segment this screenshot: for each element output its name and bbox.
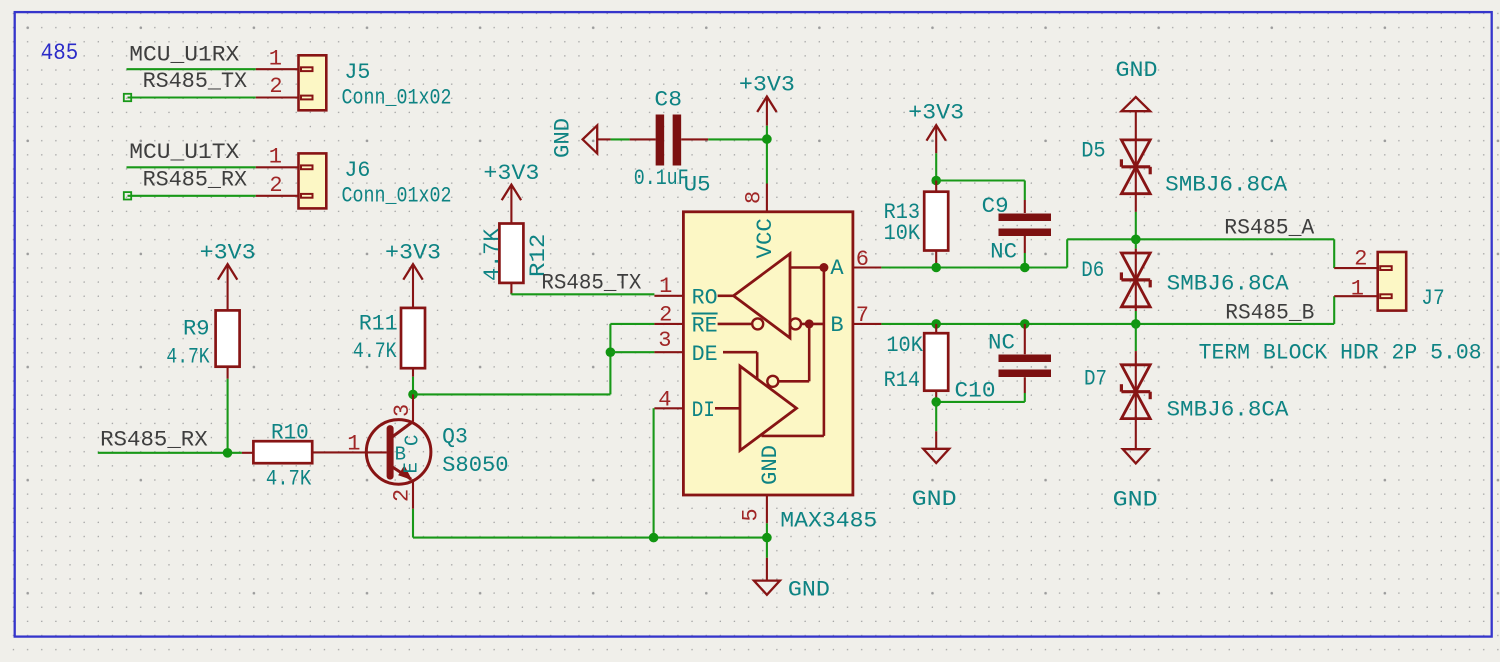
svg-text:RS485_TX: RS485_TX xyxy=(143,69,248,94)
svg-text:U5: U5 xyxy=(684,173,711,198)
svg-text:S8050: S8050 xyxy=(442,453,509,478)
svg-text:RS485_RX: RS485_RX xyxy=(100,428,208,453)
ground GND D7 xyxy=(1123,416,1149,463)
wire +3V3 to R13 xyxy=(935,153,937,180)
svg-text:1: 1 xyxy=(1351,277,1364,302)
wire R12 to U5 pin1 xyxy=(511,293,654,295)
svg-text:MCU_U1RX: MCU_U1RX xyxy=(129,43,239,68)
junction R13/pin6 xyxy=(931,263,941,273)
U5 pin 1 RO xyxy=(654,295,683,297)
svg-text:R14: R14 xyxy=(884,368,920,393)
svg-text:2: 2 xyxy=(390,489,415,502)
J7 pin 2 xyxy=(1334,267,1378,269)
svg-text:GND: GND xyxy=(912,487,957,512)
svg-text:C9: C9 xyxy=(982,194,1009,219)
power +3V3 R12 xyxy=(483,161,539,224)
wire pin6 jog up xyxy=(1066,239,1068,267)
wire DE net horizontal xyxy=(413,393,610,395)
wire R11 to Q3 collector xyxy=(412,377,414,395)
svg-text:A: A xyxy=(830,256,844,281)
junction D6/D7/RS485_B xyxy=(1131,319,1141,329)
wire R14 to GND xyxy=(935,402,937,431)
junction DI/gnd rail xyxy=(649,533,659,543)
svg-text:485: 485 xyxy=(41,40,79,67)
svg-text:5: 5 xyxy=(739,508,764,521)
svg-text:C8: C8 xyxy=(654,88,682,113)
wire junction to C9 top xyxy=(936,179,1025,181)
wire RS485_B to J7 xyxy=(1333,296,1335,324)
J6 pin 1 xyxy=(256,166,299,168)
U5 pin 8 VCC xyxy=(766,184,768,212)
junction Q3 collector/DE net xyxy=(408,390,418,400)
svg-text:RS485_RX: RS485_RX xyxy=(143,167,248,192)
svg-text:MAX3485: MAX3485 xyxy=(780,509,877,534)
U5 pin 6 A xyxy=(853,266,882,268)
svg-text:3: 3 xyxy=(390,404,415,417)
svg-text:Conn_01x02: Conn_01x02 xyxy=(342,86,452,111)
wire Q3 emitter down xyxy=(412,509,414,538)
svg-text:Conn_01x02: Conn_01x02 xyxy=(342,184,452,209)
svg-text:3: 3 xyxy=(658,328,671,353)
resistor R14 xyxy=(924,324,948,402)
svg-text:2: 2 xyxy=(269,173,282,198)
svg-text:J6: J6 xyxy=(344,158,370,183)
wire U5 pin7 net xyxy=(881,323,1334,325)
junction +3V3/R13/C9 xyxy=(931,176,941,186)
wire C10 bottom xyxy=(1024,393,1026,402)
node B junction xyxy=(805,319,814,328)
junction pin5/gnd rail xyxy=(762,533,772,543)
connector J7 body xyxy=(1378,252,1407,311)
svg-text:TERM BLOCK HDR 2P 5.08: TERM BLOCK HDR 2P 5.08 xyxy=(1199,340,1482,365)
wire MCU_U1TX to J6 pin1 xyxy=(127,166,256,168)
svg-text:SMBJ6.8CA: SMBJ6.8CA xyxy=(1167,272,1290,297)
svg-text:NC: NC xyxy=(988,331,1015,356)
wire RE to DE vertical xyxy=(609,324,611,395)
power +3V3 R13 xyxy=(908,101,964,154)
svg-text:7: 7 xyxy=(856,303,869,328)
wire U5 pin5 to gnd rail xyxy=(766,523,768,558)
svg-text:+3V3: +3V3 xyxy=(385,241,441,266)
resistor R11 xyxy=(401,308,425,377)
receiver amp U5 xyxy=(718,254,824,338)
node A junction xyxy=(819,263,828,272)
wire C9 bottom to pin6 net xyxy=(1024,253,1026,268)
svg-text:SMBJ6.8CA: SMBJ6.8CA xyxy=(1167,398,1290,423)
svg-text:Q3: Q3 xyxy=(442,425,468,450)
resistor R12 xyxy=(499,224,523,295)
junction RE/DE xyxy=(606,347,616,357)
svg-text:GND: GND xyxy=(1116,58,1158,83)
svg-text:4.7K: 4.7K xyxy=(166,345,210,370)
wire D6 top xyxy=(1135,239,1137,248)
power +3V3 R9 xyxy=(200,241,256,311)
svg-text:R10: R10 xyxy=(271,421,309,446)
junction C10/pin7 xyxy=(1020,319,1030,329)
capacitor C8 xyxy=(630,115,709,166)
resistor R13 xyxy=(924,181,948,268)
svg-text:RS485_B: RS485_B xyxy=(1225,301,1314,326)
ground GND D5 xyxy=(1121,97,1150,140)
J5 pin 1 xyxy=(256,68,299,70)
svg-text:J7: J7 xyxy=(1421,286,1444,311)
J6 pin 2 xyxy=(256,195,299,197)
wire bottom gnd rail xyxy=(413,537,767,539)
wire U5 pin3 left xyxy=(610,351,654,353)
svg-text:SMBJ6.8CA: SMBJ6.8CA xyxy=(1165,173,1288,198)
svg-text:2: 2 xyxy=(659,303,672,328)
svg-text:+3V3: +3V3 xyxy=(200,241,256,266)
U5 pin 2 RE xyxy=(654,323,683,325)
wire GND to C8 xyxy=(611,138,630,140)
wire RS485_TX to J5 pin2 xyxy=(128,96,256,98)
wire R10 to Q3 base xyxy=(312,451,387,453)
svg-text:MCU_U1TX: MCU_U1TX xyxy=(129,140,239,165)
connector J5 body xyxy=(299,55,327,110)
svg-text:J5: J5 xyxy=(344,60,370,85)
svg-text:1: 1 xyxy=(659,274,672,299)
pin name RE xyxy=(692,314,718,339)
svg-text:2: 2 xyxy=(1354,247,1367,272)
svg-text:GND: GND xyxy=(551,118,576,158)
svg-text:B: B xyxy=(830,313,843,338)
ground GND R14 xyxy=(923,431,949,463)
svg-text:RS485_A: RS485_A xyxy=(1224,215,1315,240)
ground GND C8 xyxy=(583,125,611,153)
junction R14/C10 bottom xyxy=(931,397,941,407)
svg-text:4.7K: 4.7K xyxy=(266,466,312,491)
svg-text:GND: GND xyxy=(788,578,830,603)
wire RS485_RX xyxy=(98,452,242,454)
junction R9/RS485_RX/R10 xyxy=(223,448,233,458)
svg-text:10K: 10K xyxy=(884,221,921,246)
svg-text:C10: C10 xyxy=(955,379,996,404)
svg-text:C: C xyxy=(402,435,424,446)
svg-text:D7: D7 xyxy=(1084,367,1107,392)
wire D5 to RS485_A xyxy=(1135,212,1137,239)
wire C8 to pin8 xyxy=(708,138,767,140)
svg-text:GND: GND xyxy=(1113,488,1158,513)
wire RS485_RX to J6 pin2 xyxy=(128,195,256,197)
U5 pin 3 DE xyxy=(654,351,683,353)
svg-text:RO: RO xyxy=(692,286,718,311)
svg-text:1: 1 xyxy=(347,432,360,457)
diode D6 xyxy=(1121,253,1150,307)
svg-text:NC: NC xyxy=(990,240,1017,265)
svg-text:8: 8 xyxy=(742,191,767,204)
capacitor C9 xyxy=(999,200,1052,253)
capacitor C10 xyxy=(999,324,1052,393)
resistor R10 xyxy=(242,441,312,463)
diode D5 xyxy=(1121,140,1150,194)
resistor R9 xyxy=(216,310,240,378)
svg-text:0.1uF: 0.1uF xyxy=(634,166,689,191)
svg-text:2: 2 xyxy=(269,74,282,99)
wire D6 to RS485_B xyxy=(1135,311,1137,324)
U5 pin 5 GND xyxy=(766,495,768,523)
svg-text:RS485_TX: RS485_TX xyxy=(541,271,641,296)
svg-text:6: 6 xyxy=(856,247,869,272)
svg-text:1: 1 xyxy=(269,47,282,72)
svg-text:1: 1 xyxy=(269,145,282,170)
svg-text:+3V3: +3V3 xyxy=(739,73,795,98)
driver amp U5 xyxy=(715,268,824,451)
svg-text:E: E xyxy=(401,462,423,473)
svg-text:10K: 10K xyxy=(886,333,923,358)
junction pin8/C8/+3V3 xyxy=(762,134,772,144)
U5 pin 4 DI xyxy=(654,407,683,409)
svg-text:R11: R11 xyxy=(359,312,398,337)
connector J6 body xyxy=(299,153,327,208)
junction R14/pin7 xyxy=(931,319,941,329)
wire R9 to RS485_RX xyxy=(227,379,229,453)
svg-text:4: 4 xyxy=(658,388,671,413)
svg-text:+3V3: +3V3 xyxy=(483,161,539,186)
wire RS485_A xyxy=(1067,238,1334,240)
svg-text:RE: RE xyxy=(692,314,718,339)
power +3V3 C8 xyxy=(739,73,795,126)
svg-text:GND: GND xyxy=(758,445,783,485)
op-amp U5 body xyxy=(683,212,853,495)
wire D7 top xyxy=(1135,324,1137,351)
ground GND U5 pin5 xyxy=(754,558,780,595)
power +3V3 R11 xyxy=(385,241,441,308)
svg-text:R9: R9 xyxy=(183,317,210,342)
J7 pin 1 xyxy=(1334,295,1378,297)
wire U5 pin2 left xyxy=(610,323,654,325)
diode D7 xyxy=(1121,365,1150,419)
svg-text:4.7K: 4.7K xyxy=(480,228,505,281)
svg-text:+3V3: +3V3 xyxy=(908,101,964,126)
dangling end square xyxy=(124,192,131,199)
svg-text:VCC: VCC xyxy=(753,218,778,258)
svg-text:4.7K: 4.7K xyxy=(353,339,397,364)
J5 pin 2 xyxy=(256,96,299,98)
dangling end square xyxy=(124,94,131,101)
wire U5 pin4 DI down xyxy=(653,408,655,537)
svg-text:D6: D6 xyxy=(1081,258,1104,283)
wire RS485_A to J7 xyxy=(1333,239,1335,268)
wire MCU_U1RX to J5 pin1 xyxy=(127,68,256,70)
wire U5 pin6 net xyxy=(881,266,1067,268)
svg-text:DI: DI xyxy=(692,398,715,423)
U5 pin 7 B xyxy=(853,323,882,325)
svg-text:DE: DE xyxy=(692,342,718,367)
wire +3V3 to C8 junction xyxy=(766,126,768,184)
junction D5/D6/RS485_A xyxy=(1131,235,1141,245)
transistor Q3 xyxy=(366,394,431,508)
svg-text:D5: D5 xyxy=(1081,139,1106,164)
junction C9/pin6 xyxy=(1020,263,1030,273)
